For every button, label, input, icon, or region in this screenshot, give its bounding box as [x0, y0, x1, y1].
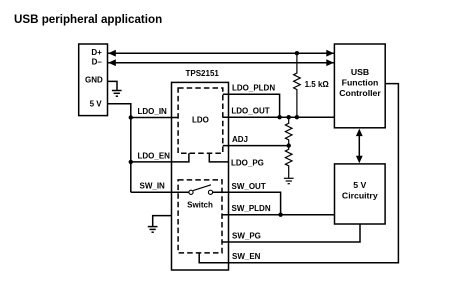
TPS2151 outer box U1	[172, 82, 229, 270]
svg-text:GND: GND	[85, 76, 103, 85]
wire double arrow controller to 5V circuitry	[358, 131, 360, 161]
svg-text:D–: D–	[92, 58, 103, 67]
USB Function Controller box	[334, 44, 385, 128]
wire D-	[108, 62, 335, 64]
wire SW_EN	[199, 84, 398, 263]
svg-text:LDO_IN: LDO_IN	[138, 107, 168, 116]
svg-text:1.5 kΩ: 1.5 kΩ	[305, 80, 330, 89]
switch contact circle left	[189, 190, 193, 194]
svg-text:LDO_PLDN: LDO_PLDN	[232, 84, 275, 93]
svg-text:LDO: LDO	[192, 115, 209, 124]
svg-text:SW_PLDN: SW_PLDN	[232, 204, 271, 213]
wire D+	[108, 52, 335, 54]
wire LDO_OUT	[223, 116, 335, 118]
wire SW_IN	[131, 191, 189, 193]
svg-text:D+: D+	[91, 48, 102, 57]
svg-text:ADJ: ADJ	[232, 135, 248, 144]
resistor R1 1.5 kOhm pull-up	[294, 53, 301, 117]
Switch block (dashed)	[178, 180, 222, 253]
wire LDO_PLDN	[223, 94, 280, 117]
wire LDO_IN	[131, 117, 179, 119]
wire GND stub of connector	[108, 81, 118, 90]
wire ADJ	[223, 145, 289, 147]
svg-text:Function: Function	[342, 78, 379, 88]
wire LDO_EN	[131, 153, 189, 162]
ground symbol (connector)	[112, 91, 122, 97]
wire LDO_PG stub	[209, 153, 228, 162]
wire GND stub of TPS2151	[153, 216, 172, 227]
wire SW_PLDN	[222, 214, 335, 216]
5 V Circuitry box	[335, 164, 386, 224]
arrowhead D- right	[326, 59, 334, 66]
svg-text:Controller: Controller	[339, 88, 381, 98]
arrowhead D- left	[108, 59, 116, 66]
resistor R3 divider bottom	[285, 146, 292, 179]
arrowhead D+ left	[108, 50, 116, 57]
wire SW_OUT	[213, 192, 281, 214]
svg-text:SW_EN: SW_EN	[232, 252, 261, 261]
junction dot divider/LDO_OUT	[287, 115, 291, 119]
junction dot R pull-up/LDO_OUT	[295, 115, 299, 119]
arrowhead D+ right	[326, 50, 334, 57]
junction dot ADJ/divider	[287, 143, 291, 147]
junction dot LDO_IN	[129, 115, 133, 119]
junction dot LDO_EN	[129, 160, 133, 164]
arrowhead up	[356, 129, 363, 137]
USB connector J1	[79, 44, 108, 116]
arrowhead down	[356, 156, 363, 164]
svg-text:5 V: 5 V	[353, 180, 366, 190]
LDO block (dashed)	[178, 88, 223, 153]
svg-text:LDO_OUT: LDO_OUT	[231, 107, 269, 116]
junction dot SW_OUT/SW_PLDN	[278, 213, 282, 217]
junction dot D+ / R pull-up	[295, 51, 299, 55]
svg-text:SW_OUT: SW_OUT	[232, 182, 266, 191]
ground symbol (divider)	[284, 178, 294, 183]
svg-text:SW_PG: SW_PG	[232, 232, 261, 241]
switch contact circle right	[208, 190, 212, 194]
svg-text:USB: USB	[351, 67, 369, 77]
svg-text:TPS2151: TPS2151	[186, 69, 220, 78]
svg-text:Circuitry: Circuitry	[342, 190, 378, 200]
svg-text:LDO_PG: LDO_PG	[231, 159, 264, 168]
svg-text:Switch: Switch	[187, 201, 213, 210]
ground symbol (TPS2151)	[148, 227, 158, 233]
wire SW_PG	[222, 224, 360, 242]
svg-text:5 V: 5 V	[90, 100, 103, 109]
svg-text:LDO_EN: LDO_EN	[138, 151, 171, 160]
resistor R2 divider top	[285, 117, 292, 145]
wire 5 V to input bus	[108, 104, 131, 193]
switch lever	[193, 185, 211, 191]
svg-text:SW_IN: SW_IN	[140, 182, 166, 191]
svg-text:USB peripheral application: USB peripheral application	[14, 13, 162, 26]
junction dot LDO_PLDN/LDO_OUT	[277, 115, 281, 119]
